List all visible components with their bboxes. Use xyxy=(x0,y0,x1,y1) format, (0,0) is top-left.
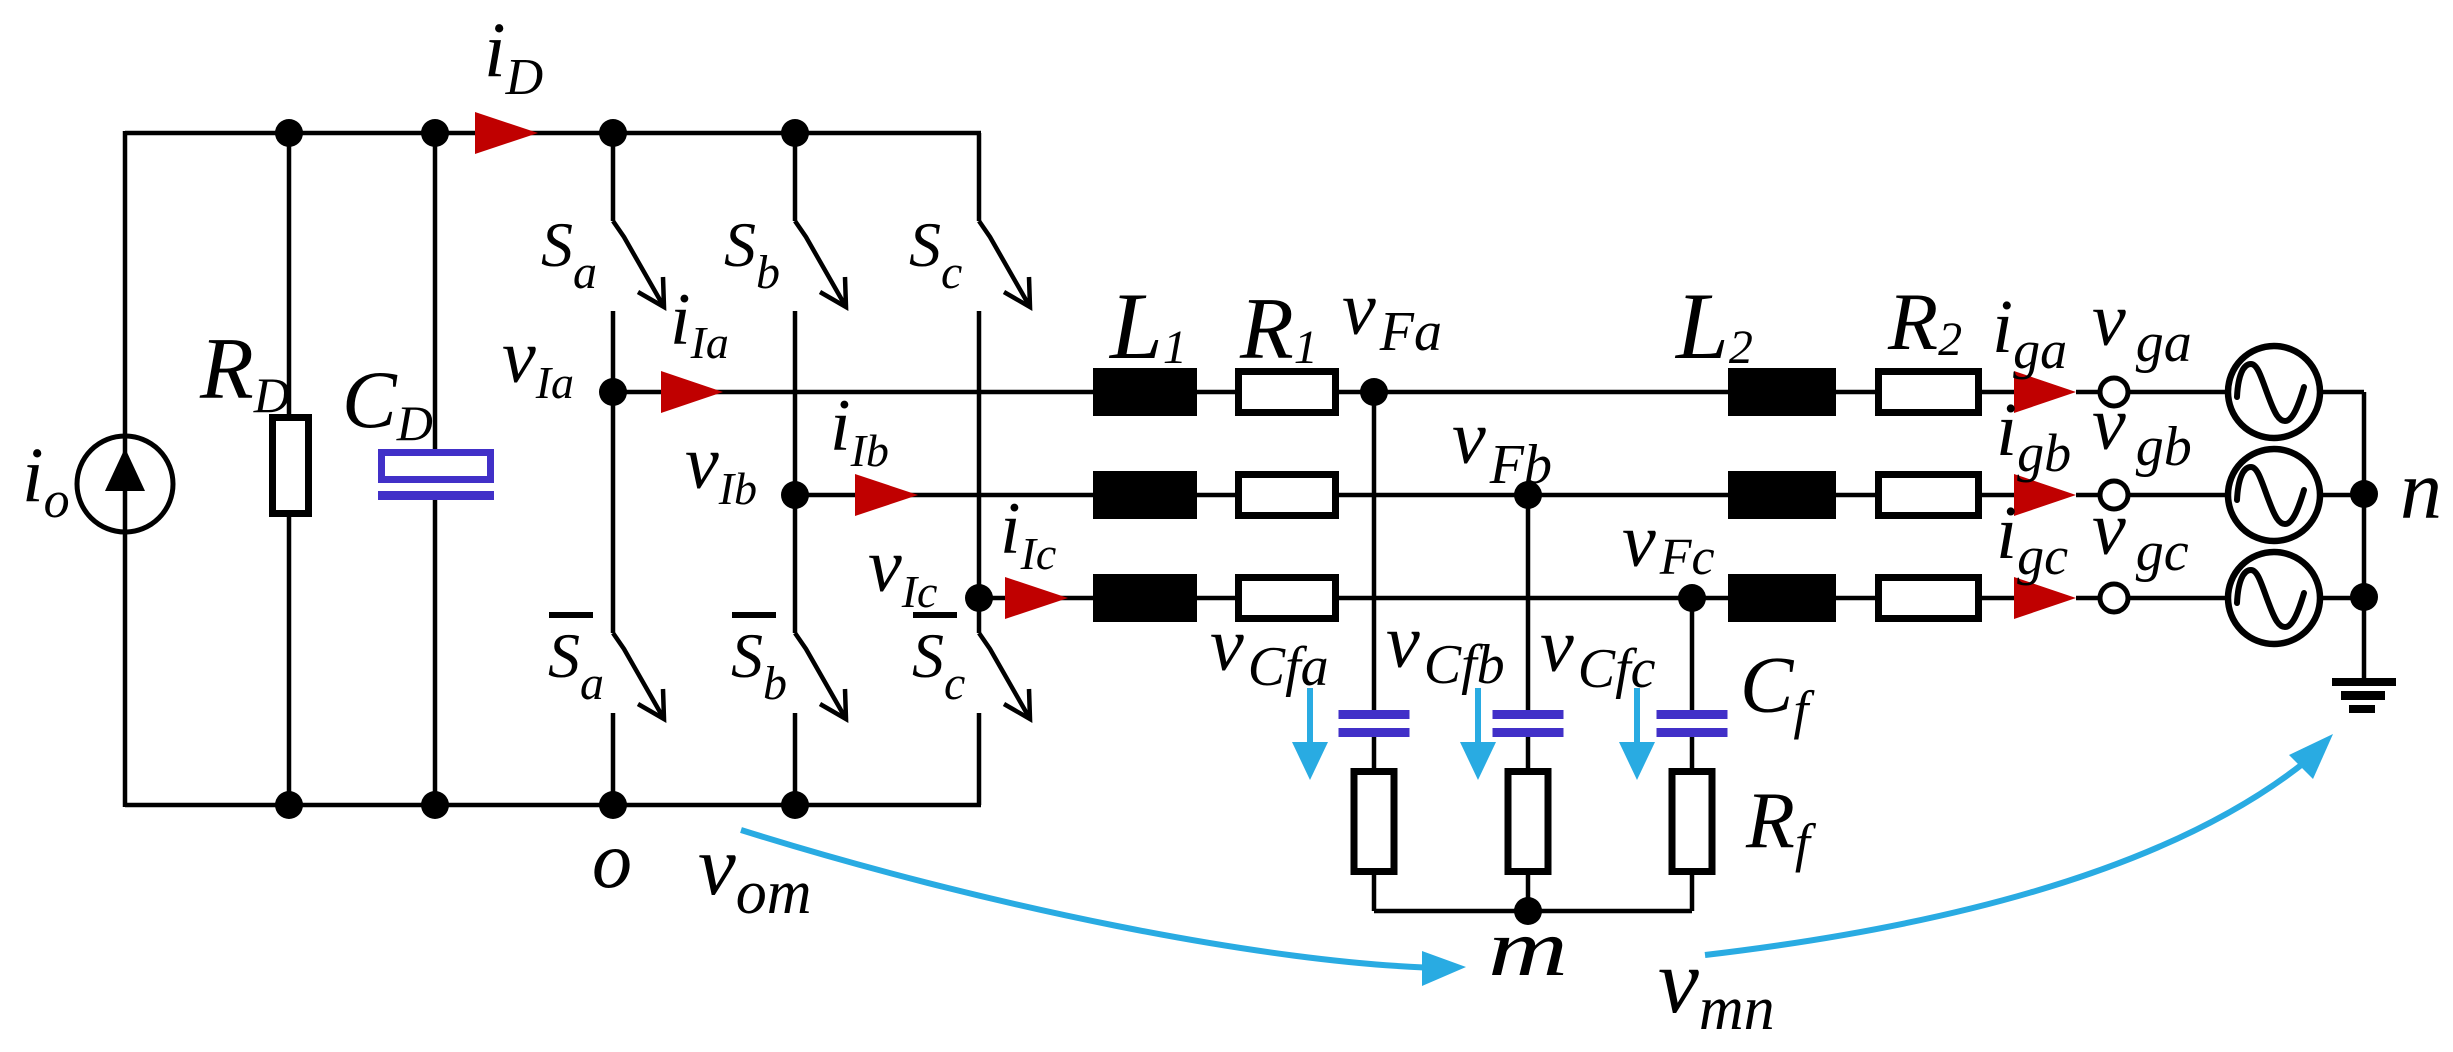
svg-text:o: o xyxy=(592,817,632,905)
svg-text:n: n xyxy=(2400,444,2442,537)
svg-text:m: m xyxy=(1488,905,1568,993)
